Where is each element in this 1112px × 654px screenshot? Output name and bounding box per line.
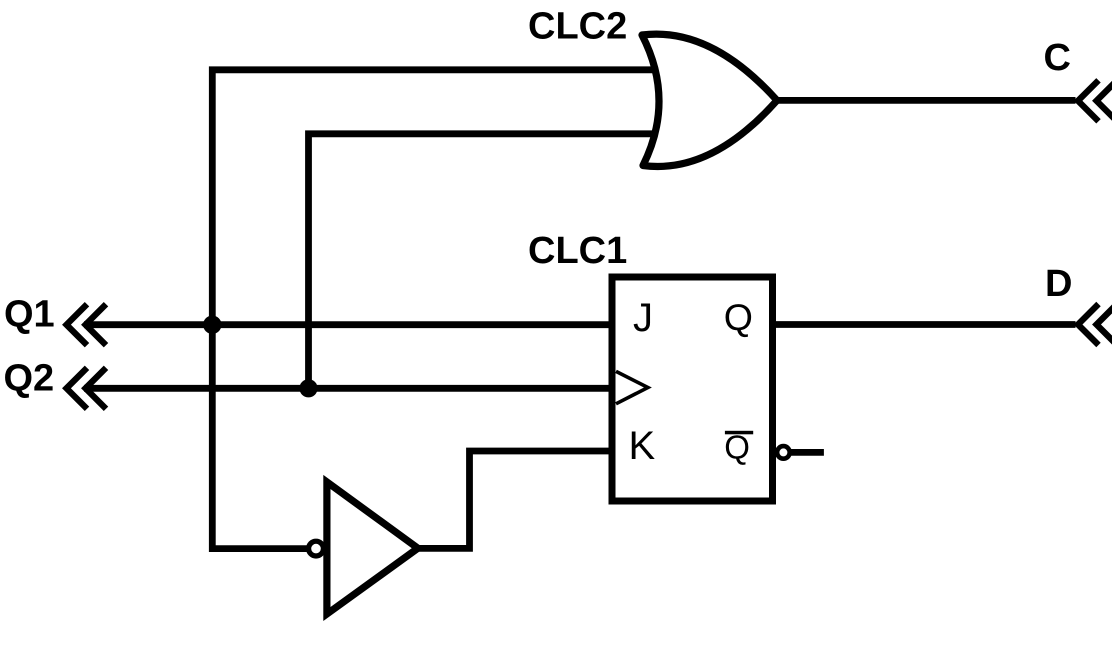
junction: Q1 net to vertical branch — [203, 316, 221, 334]
wire: net Q2 from input connector to clock pin — [84, 385, 614, 392]
output connector D chevrons — [1078, 304, 1112, 345]
wire: flip-flop Q output to connector D — [771, 321, 1076, 328]
jk-flip-flop CLC1 body — [612, 277, 773, 501]
svg-text:C: C — [1044, 37, 1071, 79]
wire: Q-bar output stub — [786, 449, 824, 456]
junction: Q2 net to vertical branch — [299, 379, 317, 397]
inverter input bubble — [309, 541, 324, 556]
wire: Q1 branch up to OR gate top input and down to inverter input — [212, 70, 662, 549]
input connector Q1 chevrons — [67, 304, 107, 345]
svg-text:D: D — [1045, 263, 1072, 305]
overline of Q-bar — [725, 431, 753, 435]
output connector C chevrons — [1078, 80, 1112, 121]
input connector Q2 chevrons — [67, 368, 107, 409]
svg-text:Q1: Q1 — [4, 294, 55, 336]
wire: OR gate output to connector C — [777, 97, 1076, 104]
inverter (inverted-input buffer) triangle — [327, 482, 418, 614]
clock input triangle — [616, 371, 648, 403]
or-gate CLC2 — [642, 34, 777, 166]
wire: inverter output up to K pin — [418, 451, 614, 548]
svg-text:K: K — [629, 424, 656, 468]
svg-text:J: J — [633, 296, 653, 340]
svg-text:CLC1: CLC1 — [528, 230, 627, 272]
flip-flop Q-bar inversion bubble — [777, 446, 790, 459]
wire: Q2 branch up to OR gate bottom input — [309, 134, 663, 388]
svg-text:Q: Q — [724, 296, 753, 338]
svg-text:Q2: Q2 — [4, 358, 55, 400]
wire: net Q1 from input connector to J pin — [84, 321, 614, 328]
svg-text:CLC2: CLC2 — [528, 6, 627, 48]
